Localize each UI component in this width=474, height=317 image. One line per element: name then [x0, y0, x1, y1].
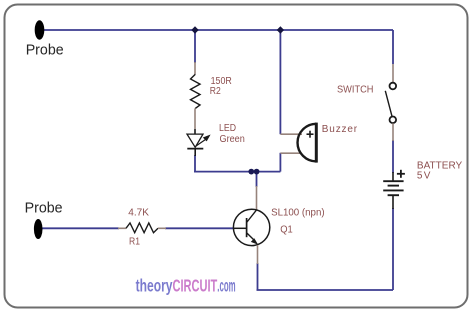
svg-text:R2: R2	[210, 86, 221, 97]
svg-text:Probe: Probe	[25, 200, 63, 217]
battery BT1 5V	[383, 161, 462, 209]
probe 1 (top test probe)	[26, 20, 64, 58]
wire R2 drop	[194, 30, 196, 63]
wire R1 to base	[165, 227, 234, 229]
svg-text:Green: Green	[220, 134, 245, 145]
wire buzzer bottom riser	[279, 153, 281, 172]
wire battery minus riser	[392, 208, 394, 290]
svg-text:SWITCH: SWITCH	[337, 85, 374, 96]
svg-text:Buzzer: Buzzer	[322, 124, 358, 135]
junction node C (collector net, left dot)	[248, 169, 254, 175]
wire bottom bus	[257, 289, 394, 291]
resistor R1 4.7K	[118, 208, 166, 248]
watermark theoryCIRCUIT.com	[136, 276, 236, 296]
svg-text:R1: R1	[129, 237, 140, 248]
svg-text:LED: LED	[219, 123, 236, 134]
buzzer BZ1	[280, 123, 357, 163]
LED D1 Green	[187, 123, 245, 156]
junction node C (collector net, right dot)	[254, 169, 260, 175]
probe 2 (bottom test probe)	[25, 200, 63, 239]
transistor Q1 SL100 (npn)	[233, 186, 324, 264]
svg-text:Q1: Q1	[280, 225, 293, 236]
svg-text:Probe: Probe	[26, 42, 64, 59]
svg-text:CIRCUIT: CIRCUIT	[173, 276, 218, 296]
wire node horizontal	[194, 171, 280, 173]
wire emitter drop	[257, 263, 259, 290]
wire switch to battery link	[392, 140, 394, 173]
wire buzzer top drop	[279, 30, 281, 134]
wire switch drop	[392, 30, 394, 64]
svg-text:4.7K: 4.7K	[128, 208, 149, 219]
svg-text:5V: 5V	[417, 170, 431, 181]
junction node A (top, R2 tap)	[191, 26, 198, 33]
svg-text:SL100 (npn): SL100 (npn)	[271, 208, 325, 219]
switch SW1	[337, 64, 396, 141]
junction node B (top, buzzer tap)	[277, 26, 284, 33]
wire top bus	[44, 29, 393, 31]
svg-text:theory: theory	[136, 276, 173, 296]
wire LED to node	[194, 155, 196, 172]
wire probe2 to R1	[42, 227, 119, 229]
wire collector drop	[256, 172, 258, 187]
resistor R2 150R	[191, 62, 232, 134]
svg-text:.com: .com	[217, 276, 235, 296]
